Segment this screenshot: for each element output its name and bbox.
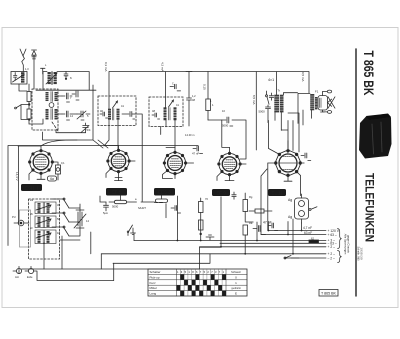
terminal signs and labels	[328, 229, 340, 260]
capacitor C3	[62, 93, 70, 102]
resistor R5	[206, 72, 214, 121]
svg-text:E: E	[235, 292, 237, 296]
antenna A2 (earth aerial)	[32, 50, 37, 89]
terminal bottom 2	[25, 266, 34, 273]
antenna A1	[20, 49, 26, 72]
svg-text:5000: 5000	[222, 124, 229, 128]
svg-text:14,4 V: 14,4 V	[15, 172, 19, 181]
IFT1 core	[112, 109, 114, 121]
tube V4 EF9	[218, 152, 242, 176]
oscillator coil 1	[35, 202, 56, 214]
capacitor C9 above IFT2	[170, 83, 181, 91]
tube V3 EBC3	[163, 151, 187, 175]
capacitor C18	[166, 204, 181, 218]
capacitor C1	[14, 73, 17, 81]
wires band filter	[29, 84, 90, 124]
IFT2 primary winding	[164, 107, 167, 120]
oscillator dashed box	[29, 199, 60, 259]
svg-text:PU: PU	[12, 215, 16, 219]
label plate 6a	[48, 176, 57, 181]
resistor R10b	[155, 199, 168, 203]
tube V2 EF9	[107, 149, 131, 173]
coil L1 input box	[11, 72, 27, 85]
terminal bottom 1	[13, 266, 22, 273]
resistor R6	[56, 162, 61, 180]
svg-text:EF 9: EF 9	[216, 190, 226, 195]
wires terminal area verticals	[257, 219, 302, 254]
tube label box EBC3	[154, 188, 175, 196]
band filter coil pair upper	[46, 92, 58, 102]
type box T865BK	[319, 290, 338, 297]
svg-text:0,15: 0,15	[203, 84, 207, 90]
pickup box outline	[20, 210, 31, 247]
IFT2 left capacitor	[152, 113, 160, 119]
svg-text:5µm: 5µm	[103, 211, 108, 215]
radio cabinet photo	[359, 114, 392, 159]
wires IFT1	[104, 96, 142, 202]
svg-text:EF 9: EF 9	[112, 190, 122, 195]
label Ag	[288, 198, 292, 219]
svg-text:0,1: 0,1	[61, 161, 65, 165]
wire osc to bus	[62, 236, 114, 281]
svg-text:47 nF: 47 nF	[263, 221, 272, 225]
IFT1 capacitor	[122, 112, 135, 120]
svg-text:Pick-up: Pick-up	[150, 275, 160, 279]
svg-text:TELEFUNKEN: TELEFUNKEN	[363, 173, 377, 242]
wires speaker section	[281, 93, 311, 150]
svg-text:0,3 mA: 0,3 mA	[104, 62, 108, 72]
rotated note text	[344, 234, 351, 255]
wire bottom bus 2	[34, 271, 114, 281]
svg-text:Schaltb. 865: Schaltb. 865	[357, 247, 360, 262]
wire antenna to L1	[19, 84, 27, 91]
title T 865 BK rotated	[361, 51, 377, 96]
switch S3	[309, 207, 317, 211]
svg-text:Mittel: Mittel	[150, 286, 158, 290]
label 4.7nF 63nF	[303, 226, 312, 235]
svg-text:4,3 mA: 4,3 mA	[161, 62, 165, 72]
wires tube V4	[217, 120, 246, 199]
wires tube V5	[261, 120, 304, 234]
ground mid	[206, 235, 214, 240]
svg-text:ECH 4: ECH 4	[25, 185, 38, 190]
svg-text:Ra: Ra	[249, 221, 253, 225]
oscillator variable capacitor	[74, 210, 86, 228]
trimmer capacitor C6	[77, 111, 86, 120]
IFT1 primary winding	[108, 109, 111, 120]
resistor R13	[243, 225, 248, 253]
svg-text:8,5 mA: 8,5 mA	[252, 95, 256, 105]
svg-text:5000: 5000	[259, 110, 266, 114]
output transformer T2	[274, 89, 297, 130]
switch table	[148, 269, 247, 296]
svg-text:Schalter: Schalter	[150, 270, 161, 274]
capacitor C17 47nF	[263, 221, 278, 231]
band filter junction node	[49, 103, 54, 108]
wire gang to filter	[56, 130, 86, 133]
svg-text:T 865 BK: T 865 BK	[321, 292, 337, 296]
wires V3 V4 area	[100, 195, 253, 247]
svg-text:Ag: Ag	[288, 198, 292, 202]
divider line	[355, 49, 357, 296]
IFT1 left capacitor	[100, 112, 108, 118]
resistor R12	[243, 193, 248, 222]
svg-text:C: C	[172, 83, 174, 86]
speaker transformer T3	[310, 94, 317, 110]
resistor R11b	[199, 220, 204, 235]
wires tube V3	[163, 147, 194, 178]
svg-text:Kurz: Kurz	[150, 281, 157, 285]
svg-text:EBC 3: EBC 3	[158, 190, 171, 195]
ground tube V2	[115, 178, 123, 181]
svg-text:+ 2 –: + 2 –	[328, 245, 336, 249]
tube label box EL11	[268, 189, 286, 196]
svg-text:1,3: 1,3	[25, 67, 29, 71]
svg-text:Schweiz: Schweiz	[231, 270, 241, 274]
resistor R11	[199, 198, 204, 241]
resistor R2	[27, 109, 31, 119]
capacitor C19	[269, 93, 273, 100]
wires tube V2	[98, 140, 135, 178]
junction dots terminals	[177, 230, 303, 255]
svg-text:14 40 m: 14 40 m	[185, 133, 194, 137]
capacitor C15	[104, 202, 109, 211]
svg-text:+ 63 –: + 63 –	[328, 233, 337, 237]
svg-text:47 nF: 47 nF	[192, 152, 199, 156]
wire top bus	[109, 72, 309, 151]
ground G3	[131, 228, 136, 235]
svg-text:Tr: Tr	[278, 89, 281, 93]
capacitor C11	[208, 117, 246, 159]
svg-text:gegen Chassis: gegen Chassis	[347, 235, 351, 253]
band filter dashed box	[32, 89, 58, 130]
band filter coil pair lower	[46, 109, 58, 120]
tube label box ECH4	[21, 184, 42, 191]
speaker LS	[318, 90, 335, 113]
svg-text:Ag: Ag	[288, 215, 292, 219]
svg-text:gedrückt: gedrückt	[231, 287, 241, 290]
capacitor C16	[253, 226, 266, 235]
electrolytic block	[295, 194, 309, 223]
svg-text:T 865 BK: T 865 BK	[361, 51, 377, 96]
small rotated labels on wires	[15, 62, 305, 181]
svg-text:6a: 6a	[50, 177, 54, 181]
switch S4 at terminal	[284, 256, 299, 260]
switch S2	[259, 91, 271, 123]
wire bottom bus 1	[19, 247, 221, 273]
capacitor C20 47nF	[192, 146, 203, 156]
trimmer capacitor C7	[81, 123, 91, 133]
IFT1 secondary winding	[117, 109, 120, 120]
svg-text:Rg: Rg	[249, 195, 253, 199]
tube label box EF9b	[212, 189, 230, 196]
label 4x1	[268, 78, 274, 82]
IF transformer 2 dashed box	[149, 97, 183, 127]
svg-text:4×1: 4×1	[268, 78, 274, 82]
wires tube V1	[18, 140, 77, 224]
svg-text:63 nF: 63 nF	[304, 231, 312, 235]
small print rotated	[357, 247, 363, 262]
svg-text:0,5 mA: 0,5 mA	[301, 72, 305, 82]
oscillator coil 2	[35, 216, 56, 228]
IFT1 tuning arrow	[113, 101, 118, 108]
IF transformer 1 dashed box	[98, 96, 136, 126]
svg-text:F1: F1	[315, 90, 319, 94]
label 5000	[103, 205, 146, 216]
capacitor C2	[64, 72, 72, 81]
svg-text:S/H0/7: S/H0/7	[138, 206, 146, 210]
capacitor C10 on wire	[186, 72, 192, 127]
IFT2 tuning arrow	[169, 100, 174, 107]
svg-text:5000: 5000	[112, 205, 119, 209]
wires oscillator	[44, 199, 80, 269]
brace right	[338, 229, 342, 263]
transformer L2/L3	[36, 72, 96, 91]
capacitor C4	[72, 91, 79, 100]
svg-text:– 2 –: – 2 –	[328, 256, 335, 260]
ground chassis stub	[41, 68, 46, 74]
svg-text:EL 11: EL 11	[272, 190, 284, 195]
switch S1	[15, 104, 30, 121]
label 5000 C11	[222, 124, 229, 128]
tube V1 ECH4	[29, 150, 54, 175]
svg-text:1938/39: 1938/39	[360, 248, 363, 261]
tube V5 EL output octagon	[275, 150, 302, 177]
terminal lines block	[101, 231, 326, 259]
logo TELEFUNKEN rotated	[363, 173, 377, 242]
oscillator coil 3	[35, 230, 56, 244]
svg-text:Ant: Ant	[15, 275, 19, 279]
svg-text:4,7 nF: 4,7 nF	[303, 226, 312, 230]
resistor R10	[109, 200, 155, 203]
wire V5 verticals	[288, 113, 299, 152]
mid horizontals	[91, 232, 210, 269]
capacitor C14	[301, 153, 311, 161]
resistor R14 small	[249, 209, 272, 213]
grid rail wires	[8, 85, 198, 246]
band switch contacts	[63, 198, 69, 236]
table black cells	[177, 274, 227, 296]
resistor R15	[309, 236, 319, 243]
tube label box EF9	[106, 188, 127, 196]
wires IFT2	[161, 97, 175, 147]
mechanical link dashed	[52, 122, 58, 131]
svg-text:Lang: Lang	[150, 292, 157, 296]
svg-text:1,2: 1,2	[192, 94, 196, 98]
capacitor C5	[62, 111, 70, 120]
IFT2 core	[169, 108, 171, 121]
IFT2 secondary winding	[174, 107, 177, 120]
svg-text:5/4: 5/4	[87, 128, 91, 132]
resistor R1	[27, 92, 31, 102]
switch S5	[127, 225, 132, 236]
table texts	[150, 270, 242, 296]
pickup connector	[14, 220, 29, 226]
misc tiny value labels	[12, 63, 289, 279]
svg-text:Erde: Erde	[27, 275, 33, 279]
